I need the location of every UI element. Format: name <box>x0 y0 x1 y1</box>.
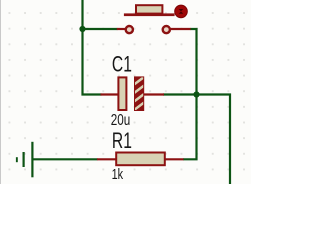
resistor R1 pin left <box>97 158 116 160</box>
capacitor C1 plate (plain) <box>118 77 126 110</box>
label 1k <box>112 167 124 183</box>
wire: top-left vertical from sheet top down to capacitor left corner <box>83 0 102 95</box>
capacitor C1 plate (hatched polarity) <box>130 73 150 114</box>
junction node B (middle) <box>193 91 199 97</box>
push button: left terminal circle <box>126 26 133 33</box>
label 20u <box>111 112 131 129</box>
wire: capacitor right pin to right-edge vertical going off bottom <box>163 95 230 185</box>
label C1 <box>112 52 132 77</box>
button left pin <box>117 28 126 30</box>
svg-text:20u: 20u <box>111 112 131 129</box>
label R1 <box>112 128 132 153</box>
push button: actuator body <box>136 5 162 13</box>
push button: red press knob <box>175 5 188 18</box>
wire: junction A to button left pin <box>83 28 118 30</box>
capacitor C1 pin right <box>144 93 165 95</box>
junction node A (top-left) <box>79 26 85 32</box>
wire: ground to R1 left pin <box>33 158 98 160</box>
capacitor C1 pin left <box>101 93 119 95</box>
wire: button right terminal down middle vertical to R1 right pin <box>183 29 197 159</box>
push button: contact bar <box>124 13 175 16</box>
ground symbol (rotated, pointing left) <box>16 142 34 178</box>
svg-text:1k: 1k <box>112 167 124 183</box>
svg-text:R1: R1 <box>112 128 132 153</box>
resistor R1 body <box>116 153 165 166</box>
push button: right terminal circle <box>163 26 170 33</box>
button right pin <box>170 28 191 30</box>
resistor R1 pin right <box>165 158 184 160</box>
svg-text:C1: C1 <box>112 52 132 77</box>
